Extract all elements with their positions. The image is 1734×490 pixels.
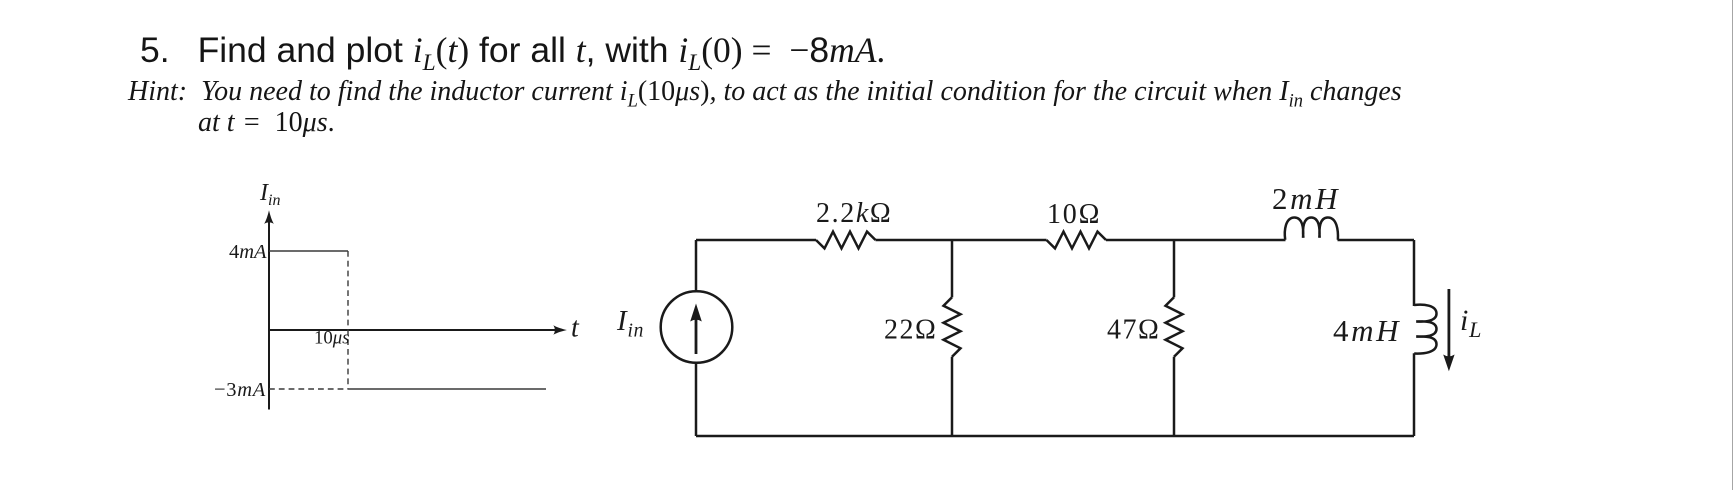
circuit top wire node2 to 2mH xyxy=(1174,239,1286,242)
svg-text:10μs: 10μs xyxy=(314,328,350,349)
current source circle xyxy=(661,291,733,363)
inductor 2mH coil bumps xyxy=(1285,218,1338,240)
right page border line xyxy=(1732,0,1734,490)
title line xyxy=(140,29,885,77)
svg-text:2.2kΩ: 2.2kΩ xyxy=(816,198,892,229)
svg-text:4mA: 4mA xyxy=(229,241,267,263)
svg-text:iL: iL xyxy=(1460,304,1482,342)
circuit top wire left segment xyxy=(696,239,816,242)
resistor R 47ohm zigzag xyxy=(1166,297,1183,357)
graph t axis arrowhead xyxy=(553,325,567,335)
hint line 1 xyxy=(128,76,1402,112)
svg-text:2mH: 2mH xyxy=(1272,181,1340,216)
graph I_in axis arrowhead xyxy=(264,210,274,224)
circuit top wire node1 to 10ohm xyxy=(952,239,1047,242)
circuit right wire lower xyxy=(1413,353,1416,436)
iL current arrowhead xyxy=(1443,355,1454,372)
waveform 4mA segment xyxy=(269,250,348,252)
circuit top wire segment to node1 xyxy=(876,239,953,242)
dashed vertical line at 10us xyxy=(347,251,349,389)
circuit left wire below source xyxy=(695,363,698,436)
dashed -3mA level line xyxy=(269,388,348,390)
waveform -3mA segment xyxy=(348,388,546,390)
current source arrowhead xyxy=(690,304,702,322)
inductor 4mH coil bumps xyxy=(1414,305,1436,354)
svg-text:Iin: Iin xyxy=(259,180,280,209)
svg-text:4mH: 4mH xyxy=(1333,313,1401,348)
graph t axis (horizontal) xyxy=(269,329,561,331)
resistor R 10ohm zigzag xyxy=(1047,232,1107,249)
current source arrow shaft xyxy=(695,317,698,354)
svg-text:22Ω: 22Ω xyxy=(884,315,937,346)
branch node1 wire lower xyxy=(951,357,954,436)
svg-text:Iin: Iin xyxy=(616,305,644,342)
svg-text:t: t xyxy=(571,313,580,344)
circuit right wire upper xyxy=(1413,240,1416,306)
resistor R 2.2k zigzag xyxy=(816,232,876,249)
circuit top wire 2mH to right corner xyxy=(1338,239,1415,242)
circuit top wire 10ohm to node2 xyxy=(1106,239,1174,242)
branch node2 wire upper xyxy=(1173,240,1176,297)
circuit bottom wire xyxy=(696,435,1414,438)
svg-text:47Ω: 47Ω xyxy=(1107,315,1160,346)
resistor R 22ohm zigzag xyxy=(944,297,961,357)
iL current arrow shaft xyxy=(1448,289,1451,358)
hint line 2 xyxy=(198,107,335,139)
branch node1 wire upper xyxy=(951,240,954,297)
branch node2 wire lower xyxy=(1173,357,1176,436)
svg-text:−3mA: −3mA xyxy=(214,379,266,401)
svg-text:10Ω: 10Ω xyxy=(1047,199,1101,230)
graph I_in axis (vertical) xyxy=(268,216,270,410)
circuit left wire above source xyxy=(695,240,698,292)
